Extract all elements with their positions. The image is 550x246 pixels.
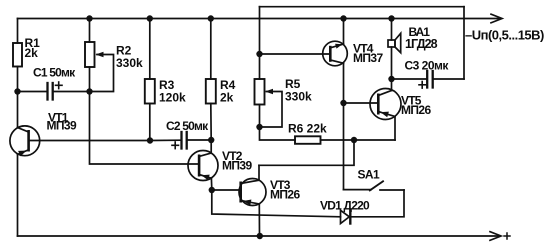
wire VT1 base line [29,140,150,142]
wire bottom rail [18,235,500,237]
svg-text:–Uп(0,5...15В): –Uп(0,5...15В) [465,28,544,43]
node junction R3 top rail [147,15,153,21]
node junction R5 bottom [256,124,262,130]
wire R5 wiper [260,92,283,128]
label C3 + [419,84,426,86]
resistor R4 [210,19,212,80]
resistor R1 [17,19,19,44]
node junction VT3 emitter bottom rail [257,233,263,239]
transistor VT3 [239,179,266,206]
svg-text:VD1 Д220: VD1 Д220 [320,199,370,213]
node junction VT5 collector / C3 / speaker [388,76,394,82]
svg-text:SA1: SA1 [358,168,380,182]
resistor R6 [260,127,296,140]
wire R2 wiper [90,55,114,92]
svg-text:2k: 2k [25,46,39,60]
svg-text:С2 50мк: С2 50мк [166,119,209,133]
node junction R6/VT5-emitter/VT3-collector [351,137,357,143]
node junction speaker top rail [388,15,394,21]
svg-text:МП39: МП39 [47,118,77,132]
node junction VT2-emitter/VT3-base [209,187,215,193]
svg-text:МП39: МП39 [222,159,252,173]
label C2 + [172,144,179,146]
node junction R1/C1/VT1-collector [14,88,20,94]
wire diode to VT2 emitter node [212,190,341,217]
capacitor C1 [18,91,47,93]
svg-text:330k: 330k [116,56,143,70]
speaker BA1 [391,19,393,41]
node junction R4 top rail [208,15,214,21]
node junction C2/R4/VT2-collector [208,137,214,143]
node junction R2 top rail [86,15,92,21]
wire vertical from top line to VT4 base node [259,7,261,79]
bottom output arrow [490,232,501,241]
switch SA1 [344,189,372,191]
wire vertical C3 right to top line [463,7,465,79]
capacitor C2 [150,139,180,141]
resistor R5 (variable) [255,79,265,105]
resistor R3 [149,19,151,80]
svg-text:С3 20мк: С3 20мк [405,59,450,73]
svg-text:R6 22k: R6 22k [288,122,327,136]
wire top rail [18,18,500,20]
transistor VT4 [323,41,348,66]
output arrow -Un [491,14,502,23]
svg-text:120k: 120k [159,91,186,105]
svg-text:МП37: МП37 [353,51,383,65]
wire R2 bottom to VT2 base [90,92,198,165]
transistor VT5 [370,89,401,120]
svg-text:330k: 330k [285,90,312,104]
svg-text:МП26: МП26 [270,188,300,202]
node junction VT1base/R3/C2 [147,137,153,143]
capacitor C3 [392,78,427,80]
node junction C1/R2 [86,88,92,94]
svg-text:МП26: МП26 [401,103,431,117]
wire VT4 collector down to switch [343,103,345,190]
wire VT4-base feedback top line [260,6,465,8]
label plus terminal [504,235,510,237]
node junction VT4 base / R5 top [256,51,262,57]
svg-text:С1 50мк: С1 50мк [33,66,76,80]
diode VD1 [341,210,350,223]
wire VT3 collector to R6/VT5-emitter node [259,140,354,165]
svg-text:2k: 2k [220,91,234,105]
resistor R2 (variable) [89,19,91,43]
transistor VT2 [188,151,218,181]
transistor VT1 [10,126,40,156]
node junction VT4 collector / VT5 base [340,100,346,106]
svg-text:1ГД28: 1ГД28 [405,37,438,51]
node junction VT4 emitter top rail [340,15,346,21]
label C1 + [56,84,63,86]
wire switch to diode line [350,190,404,217]
